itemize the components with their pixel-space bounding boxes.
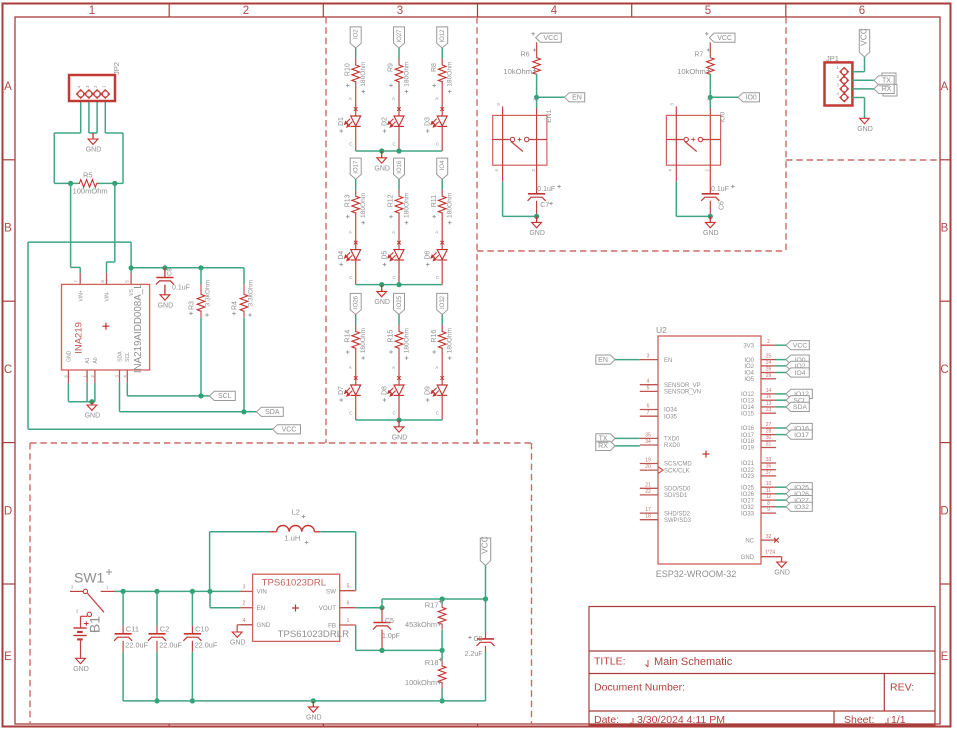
svg-text:C2: C2 bbox=[160, 625, 170, 634]
svg-text:U2: U2 bbox=[656, 325, 667, 335]
svg-text:TPS61023DRL: TPS61023DRL bbox=[262, 578, 327, 589]
svg-text:16: 16 bbox=[766, 394, 772, 400]
svg-text:GND: GND bbox=[857, 126, 873, 133]
svg-text:22.0uF: 22.0uF bbox=[195, 641, 218, 650]
svg-text:INA219AIDD008A_L: INA219AIDD008A_L bbox=[133, 283, 144, 373]
svg-text:SW: SW bbox=[326, 589, 336, 596]
svg-text:GND: GND bbox=[158, 302, 174, 309]
svg-text:SCS/CMD: SCS/CMD bbox=[664, 462, 692, 468]
svg-text:EN: EN bbox=[598, 357, 608, 364]
svg-text:IO14: IO14 bbox=[741, 405, 755, 411]
svg-text:VIN-: VIN- bbox=[105, 291, 111, 301]
svg-text:C8: C8 bbox=[167, 268, 173, 276]
svg-text:0.1uF: 0.1uF bbox=[711, 186, 729, 193]
svg-text:SCL: SCL bbox=[218, 393, 232, 400]
svg-text:35: 35 bbox=[645, 432, 651, 438]
svg-text:IO17: IO17 bbox=[741, 433, 755, 439]
svg-text:R15: R15 bbox=[388, 330, 395, 343]
svg-text:L2: L2 bbox=[292, 508, 300, 517]
svg-text:C11: C11 bbox=[126, 625, 139, 634]
svg-text:4: 4 bbox=[647, 379, 650, 385]
svg-text:GND: GND bbox=[741, 555, 755, 561]
svg-text:1.0pF: 1.0pF bbox=[382, 633, 400, 640]
svg-text:Sheet:: Sheet: bbox=[844, 714, 874, 726]
svg-text:3/30/2024 4:11 PM: 3/30/2024 4:11 PM bbox=[637, 714, 725, 726]
svg-text:R6: R6 bbox=[521, 52, 530, 59]
svg-text:E: E bbox=[941, 651, 949, 663]
svg-text:IO18: IO18 bbox=[741, 439, 755, 445]
svg-text:VCC: VCC bbox=[858, 28, 868, 46]
svg-text:R9: R9 bbox=[388, 63, 395, 72]
svg-text:SDI/SD1: SDI/SD1 bbox=[664, 493, 688, 499]
svg-text:10kOhm: 10kOhm bbox=[677, 67, 706, 76]
svg-text:IO16: IO16 bbox=[741, 426, 755, 432]
svg-text:180Ohm: 180Ohm bbox=[447, 192, 454, 218]
svg-text:22.0uF: 22.0uF bbox=[159, 641, 182, 650]
svg-text:2: 2 bbox=[243, 5, 249, 17]
svg-text:22.0uF: 22.0uF bbox=[125, 641, 148, 650]
svg-text:INA219: INA219 bbox=[73, 322, 84, 354]
svg-text:VCC: VCC bbox=[479, 536, 489, 554]
svg-text:100mOhm: 100mOhm bbox=[73, 187, 108, 196]
svg-text:SW1: SW1 bbox=[74, 570, 105, 586]
svg-text:R16: R16 bbox=[431, 330, 438, 343]
svg-text:SWP/SD3: SWP/SD3 bbox=[664, 518, 692, 524]
svg-text:IO4: IO4 bbox=[795, 370, 806, 377]
svg-text:14: 14 bbox=[766, 388, 772, 394]
svg-text:GND: GND bbox=[85, 413, 101, 420]
svg-text:26: 26 bbox=[766, 367, 772, 373]
svg-text:SCK/CLK: SCK/CLK bbox=[664, 468, 690, 474]
svg-text:GND: GND bbox=[257, 622, 271, 629]
svg-text:11: 11 bbox=[766, 488, 771, 494]
svg-text:GND: GND bbox=[86, 147, 102, 154]
svg-text:R7: R7 bbox=[694, 52, 703, 59]
svg-text:IO16: IO16 bbox=[397, 160, 403, 174]
svg-text:Main Schematic: Main Schematic bbox=[654, 656, 733, 668]
svg-text:3.3kOhm: 3.3kOhm bbox=[248, 279, 255, 306]
svg-text:28: 28 bbox=[766, 429, 772, 435]
svg-text:D7: D7 bbox=[338, 386, 345, 395]
svg-text:C5: C5 bbox=[385, 618, 394, 625]
svg-text:R11: R11 bbox=[431, 195, 438, 207]
svg-text:EN: EN bbox=[664, 358, 672, 364]
svg-text:5: 5 bbox=[347, 584, 350, 590]
svg-text:24: 24 bbox=[766, 360, 772, 366]
svg-text:VOUT: VOUT bbox=[319, 605, 336, 612]
svg-text:GND: GND bbox=[374, 165, 390, 172]
svg-text:37: 37 bbox=[766, 470, 772, 476]
svg-text:C10: C10 bbox=[195, 625, 209, 634]
svg-text:1.uH: 1.uH bbox=[284, 534, 300, 543]
svg-text:IO17: IO17 bbox=[794, 432, 809, 439]
svg-text:IO33: IO33 bbox=[741, 511, 755, 517]
svg-text:GND: GND bbox=[73, 666, 89, 673]
svg-text:IO0: IO0 bbox=[744, 358, 754, 364]
svg-text:32: 32 bbox=[766, 534, 772, 540]
svg-text:4: 4 bbox=[551, 5, 558, 17]
svg-text:R18: R18 bbox=[425, 658, 439, 667]
svg-text:IO26: IO26 bbox=[354, 295, 360, 309]
svg-text:0.1uF: 0.1uF bbox=[172, 285, 190, 292]
svg-text:R3: R3 bbox=[189, 301, 196, 310]
svg-text:R10: R10 bbox=[344, 63, 351, 76]
svg-text:VCC: VCC bbox=[793, 343, 807, 350]
svg-text:TX: TX bbox=[882, 78, 891, 85]
svg-text:C: C bbox=[940, 364, 948, 376]
svg-text:SCL: SCL bbox=[125, 352, 131, 362]
svg-text:R17: R17 bbox=[425, 600, 439, 609]
svg-text:SDA: SDA bbox=[793, 404, 807, 411]
svg-text:JP1: JP1 bbox=[826, 54, 839, 63]
svg-text:R13: R13 bbox=[344, 194, 351, 207]
svg-text:FB: FB bbox=[328, 623, 336, 630]
svg-text:IO4: IO4 bbox=[440, 160, 446, 170]
svg-text:36: 36 bbox=[766, 464, 772, 470]
svg-text:29: 29 bbox=[766, 373, 772, 379]
svg-text:4: 4 bbox=[243, 618, 246, 624]
svg-text:27: 27 bbox=[766, 422, 772, 428]
svg-text:180Ohm: 180Ohm bbox=[447, 61, 454, 87]
svg-text:1*24: 1*24 bbox=[765, 550, 776, 556]
svg-text:IO2: IO2 bbox=[744, 364, 754, 370]
svg-text:GND: GND bbox=[230, 640, 246, 647]
svg-text:21: 21 bbox=[645, 482, 651, 488]
svg-text:GND: GND bbox=[374, 299, 390, 306]
svg-text:D8: D8 bbox=[382, 386, 389, 395]
svg-text:180Ohm: 180Ohm bbox=[360, 61, 367, 87]
svg-text:0.1uF: 0.1uF bbox=[537, 186, 555, 193]
svg-text:IO12: IO12 bbox=[741, 392, 755, 398]
svg-text:TXD0: TXD0 bbox=[664, 437, 680, 443]
svg-text:VCC: VCC bbox=[717, 35, 732, 42]
svg-text:17: 17 bbox=[645, 507, 651, 513]
svg-text:EN: EN bbox=[257, 605, 266, 612]
svg-text:IO34: IO34 bbox=[664, 408, 678, 414]
svg-text:2: 2 bbox=[767, 339, 770, 345]
svg-text:18: 18 bbox=[645, 514, 651, 520]
svg-text:Date:: Date: bbox=[594, 714, 619, 726]
svg-text:IO0: IO0 bbox=[720, 112, 727, 123]
svg-text:GND: GND bbox=[306, 715, 322, 722]
svg-text:SENSOR_VP: SENSOR_VP bbox=[664, 383, 701, 389]
svg-text:RX: RX bbox=[882, 86, 892, 93]
svg-text:IO27: IO27 bbox=[397, 29, 403, 43]
svg-text:ESP32-WROOM-32: ESP32-WROOM-32 bbox=[656, 569, 737, 579]
svg-text:180Ohm: 180Ohm bbox=[404, 61, 411, 87]
svg-text:D3: D3 bbox=[425, 117, 432, 126]
svg-text:A0: A0 bbox=[93, 357, 99, 363]
svg-text:IO32: IO32 bbox=[741, 505, 755, 511]
svg-text:EN: EN bbox=[572, 95, 582, 102]
svg-text:3.3kOhm: 3.3kOhm bbox=[205, 279, 212, 306]
svg-text:3: 3 bbox=[243, 585, 246, 591]
svg-text:180Ohm: 180Ohm bbox=[360, 192, 367, 218]
svg-text:VIN+: VIN+ bbox=[78, 290, 84, 301]
svg-text:R14: R14 bbox=[344, 330, 351, 343]
svg-text:5: 5 bbox=[705, 5, 711, 17]
svg-text:10: 10 bbox=[766, 481, 772, 487]
svg-text:SHD/SD2: SHD/SD2 bbox=[664, 511, 691, 517]
svg-text:SDO/SD0: SDO/SD0 bbox=[664, 487, 691, 493]
svg-text:453kOhm: 453kOhm bbox=[405, 620, 437, 629]
svg-text:SDA: SDA bbox=[117, 351, 123, 362]
svg-text:180Ohm: 180Ohm bbox=[360, 327, 367, 353]
svg-text:180Ohm: 180Ohm bbox=[404, 192, 411, 218]
svg-text:B1: B1 bbox=[87, 616, 103, 633]
svg-text:D5: D5 bbox=[382, 251, 389, 260]
svg-text:D4: D4 bbox=[338, 251, 345, 260]
svg-text:D: D bbox=[940, 506, 948, 518]
svg-text:Document Number:: Document Number: bbox=[594, 682, 685, 694]
svg-text:IO27: IO27 bbox=[741, 498, 755, 504]
svg-text:R12: R12 bbox=[388, 194, 395, 207]
svg-text:IO19: IO19 bbox=[741, 446, 755, 452]
svg-text:JP2: JP2 bbox=[112, 62, 121, 75]
svg-text:IO0: IO0 bbox=[746, 95, 757, 102]
svg-text:C7: C7 bbox=[540, 202, 549, 209]
svg-text:9: 9 bbox=[767, 507, 770, 513]
svg-text:3: 3 bbox=[647, 354, 650, 360]
svg-text:13: 13 bbox=[766, 401, 772, 407]
svg-text:2: 2 bbox=[243, 601, 246, 607]
svg-text:10kOhm: 10kOhm bbox=[503, 67, 532, 76]
svg-text:1: 1 bbox=[89, 5, 95, 17]
svg-text:6: 6 bbox=[859, 5, 865, 17]
svg-text:12: 12 bbox=[766, 494, 772, 500]
svg-text:IO22: IO22 bbox=[741, 468, 755, 474]
svg-text:22: 22 bbox=[645, 489, 651, 495]
svg-text:TPS61023DRLR: TPS61023DRLR bbox=[278, 629, 350, 640]
svg-text:180Ohm: 180Ohm bbox=[404, 327, 411, 353]
svg-text:E: E bbox=[4, 651, 12, 663]
svg-text:C9: C9 bbox=[474, 636, 483, 643]
svg-text:RXD0: RXD0 bbox=[664, 443, 681, 449]
svg-text:SENSOR_VN: SENSOR_VN bbox=[664, 390, 701, 396]
svg-text:IO32: IO32 bbox=[440, 295, 446, 309]
svg-text:1: 1 bbox=[347, 618, 350, 624]
svg-text:IO17: IO17 bbox=[354, 160, 360, 174]
svg-text:8: 8 bbox=[767, 501, 770, 507]
svg-text:GND: GND bbox=[66, 350, 72, 362]
svg-text:B: B bbox=[4, 223, 12, 235]
svg-text:EN1: EN1 bbox=[546, 109, 553, 122]
svg-text:D9: D9 bbox=[425, 386, 432, 395]
svg-text:IO25: IO25 bbox=[741, 485, 755, 491]
svg-text:IO26: IO26 bbox=[741, 492, 755, 498]
svg-text:REV:: REV: bbox=[890, 682, 914, 694]
svg-text:IO32: IO32 bbox=[794, 504, 809, 511]
svg-text:23: 23 bbox=[766, 407, 772, 413]
svg-text:25: 25 bbox=[766, 354, 772, 360]
svg-text:B: B bbox=[941, 223, 949, 235]
svg-text:IO21: IO21 bbox=[741, 461, 755, 467]
svg-text:TITLE:: TITLE: bbox=[594, 656, 626, 668]
svg-text:D2: D2 bbox=[382, 117, 389, 126]
svg-text:D: D bbox=[4, 506, 12, 518]
svg-text:VCC: VCC bbox=[282, 427, 297, 434]
svg-text:IO15: IO15 bbox=[741, 411, 755, 417]
svg-text:IO12: IO12 bbox=[440, 29, 446, 43]
svg-text:VCC: VCC bbox=[544, 35, 559, 42]
svg-text:IO4: IO4 bbox=[744, 371, 754, 377]
svg-text:IO2: IO2 bbox=[354, 29, 360, 39]
svg-text:IO25: IO25 bbox=[397, 295, 403, 309]
svg-text:IO23: IO23 bbox=[741, 474, 755, 480]
svg-text:RX: RX bbox=[598, 443, 608, 450]
svg-text:30: 30 bbox=[766, 435, 772, 441]
svg-text:GND: GND bbox=[529, 230, 545, 237]
svg-text:6: 6 bbox=[647, 404, 650, 410]
svg-text:D1: D1 bbox=[338, 117, 345, 126]
svg-text:D6: D6 bbox=[425, 251, 432, 260]
svg-text:A1: A1 bbox=[85, 357, 91, 363]
svg-text:34: 34 bbox=[645, 439, 651, 445]
svg-text:7: 7 bbox=[647, 410, 650, 416]
svg-text:C: C bbox=[4, 364, 12, 376]
svg-text:R4: R4 bbox=[232, 301, 239, 310]
svg-text:VIN: VIN bbox=[257, 589, 267, 596]
svg-text:20: 20 bbox=[645, 464, 651, 470]
svg-text:5: 5 bbox=[647, 385, 650, 391]
svg-text:A: A bbox=[4, 81, 12, 93]
svg-text:R8: R8 bbox=[431, 63, 438, 72]
svg-text:SDA: SDA bbox=[265, 409, 280, 416]
svg-text:6: 6 bbox=[347, 601, 350, 607]
svg-text:IO35: IO35 bbox=[664, 414, 678, 420]
svg-text:31: 31 bbox=[766, 442, 772, 448]
svg-text:GND: GND bbox=[703, 230, 719, 237]
svg-text:IO13: IO13 bbox=[741, 398, 755, 404]
svg-text:2.2uF: 2.2uF bbox=[465, 651, 483, 658]
svg-text:A: A bbox=[941, 81, 949, 93]
svg-text:R5: R5 bbox=[83, 171, 93, 180]
svg-text:1/1: 1/1 bbox=[891, 714, 906, 726]
svg-text:33: 33 bbox=[766, 457, 772, 463]
svg-text:GND: GND bbox=[774, 570, 790, 577]
svg-text:IO5: IO5 bbox=[744, 377, 754, 383]
svg-text:3: 3 bbox=[397, 5, 403, 17]
svg-text:3V3: 3V3 bbox=[743, 343, 754, 349]
svg-text:19: 19 bbox=[645, 458, 651, 464]
svg-text:C6: C6 bbox=[718, 201, 725, 210]
svg-text:100kOhm: 100kOhm bbox=[405, 678, 437, 687]
svg-text:GND: GND bbox=[392, 434, 408, 441]
svg-text:180Ohm: 180Ohm bbox=[447, 327, 454, 353]
svg-text:NC: NC bbox=[745, 538, 754, 544]
